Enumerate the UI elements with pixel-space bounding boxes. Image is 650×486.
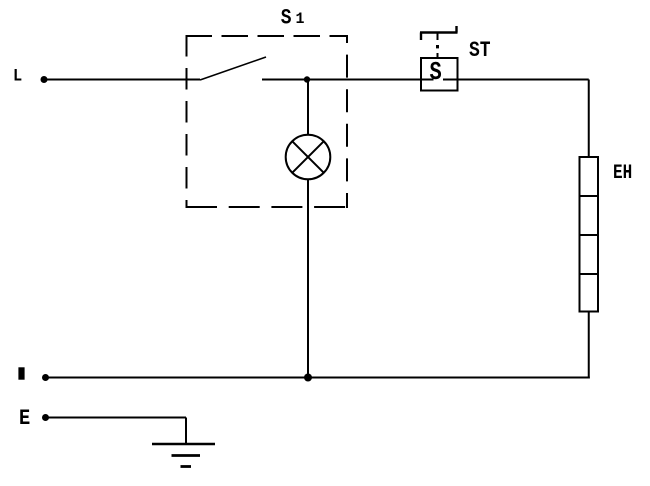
terminal dot N <box>42 374 49 381</box>
indicator lamp wire from junction <box>307 80 309 136</box>
wire junction to thermostat ST <box>308 79 434 81</box>
wire thermostat to right corner <box>443 79 589 81</box>
earth ground symbol <box>152 443 215 446</box>
switch S1 enclosure (dashed box) <box>186 35 349 208</box>
thermostat sensing element symbol <box>420 31 458 33</box>
wire L to switch <box>44 79 200 81</box>
N wire <box>46 377 590 379</box>
thermostat ST box <box>421 58 458 91</box>
switch blade <box>200 57 266 80</box>
terminal dot E <box>42 414 49 421</box>
svg-text:1: 1 <box>296 9 305 27</box>
svg-text:E: E <box>19 407 30 432</box>
switch fixed contact wire <box>262 79 308 81</box>
wire EH to N line <box>588 311 590 379</box>
label N <box>18 367 24 379</box>
heater element EH <box>580 157 599 312</box>
svg-text:L: L <box>13 66 22 86</box>
svg-text:ST: ST <box>469 38 491 63</box>
junction node (switch output) <box>304 76 310 82</box>
wire lamp to N line <box>307 179 309 377</box>
svg-text:S: S <box>281 6 292 31</box>
E wire <box>46 417 187 419</box>
wire ST to heater EH <box>588 80 590 158</box>
svg-text:EH: EH <box>613 162 632 184</box>
indicator lamp <box>286 135 331 180</box>
thermostat actuator dash-dot link <box>437 34 439 41</box>
junction node lamp/N <box>304 374 312 382</box>
E wire drop <box>185 418 187 445</box>
svg-text:S: S <box>430 58 442 87</box>
terminal dot L <box>41 76 48 83</box>
